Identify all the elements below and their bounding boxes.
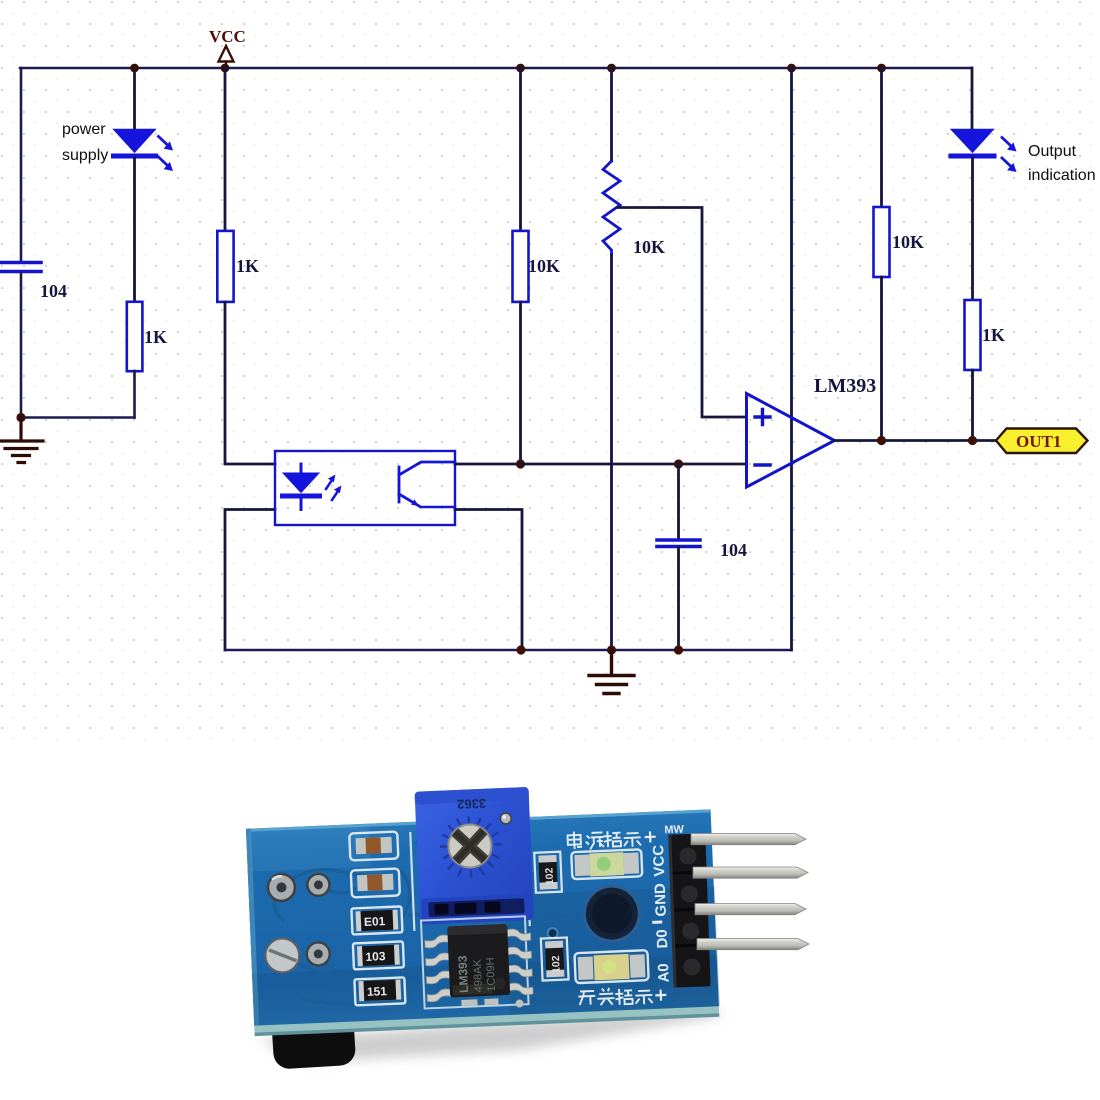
wire R1 top bbox=[224, 68, 227, 231]
wire top power rail bbox=[20, 67, 972, 70]
capacitor C2 104 bbox=[657, 540, 747, 560]
node emitter ground junction bbox=[516, 645, 525, 654]
svg-text:10K: 10K bbox=[892, 232, 924, 252]
svg-text:VCC: VCC bbox=[650, 844, 668, 877]
capacitor C1 104 bbox=[0, 263, 67, 302]
svg-text:OUT1: OUT1 bbox=[1016, 432, 1061, 451]
smd capacitor tan 2 bbox=[357, 874, 394, 891]
copper traces bbox=[272, 832, 641, 1008]
resistor R6 1K bbox=[965, 300, 1006, 370]
wire R2 to ground link bbox=[133, 371, 136, 418]
smd resistor 103 bbox=[357, 945, 400, 967]
svg-text:indication: indication bbox=[1028, 167, 1096, 184]
svg-text:10K: 10K bbox=[633, 237, 665, 257]
node power LED branch on rail bbox=[130, 64, 139, 73]
IC LM393 SOIC-8 bbox=[424, 923, 533, 1011]
wire C2 top bbox=[677, 464, 680, 539]
header pin 1 bbox=[691, 834, 806, 845]
optocoupler phototransistor bbox=[399, 462, 455, 507]
smd 102 lower bbox=[541, 938, 569, 981]
wire left column upper bbox=[20, 68, 23, 261]
resistor R3 10K bbox=[513, 231, 561, 302]
node rail branch R5 bbox=[877, 64, 886, 73]
wire opto collector to node bbox=[455, 463, 521, 466]
svg-text:151: 151 bbox=[367, 984, 388, 999]
board substrate bbox=[246, 809, 719, 1025]
board shadow bbox=[258, 1008, 722, 1062]
svg-text:supply: supply bbox=[62, 147, 108, 164]
silkscreen chinese label switch indicator bbox=[578, 985, 667, 1007]
svg-text:LM393: LM393 bbox=[455, 955, 471, 993]
LED D2 output indication bbox=[951, 130, 1017, 173]
header pin 2 bbox=[693, 867, 808, 878]
svg-text:102: 102 bbox=[543, 867, 556, 885]
solder joint pads bottom pair bbox=[265, 936, 331, 973]
svg-text:1K: 1K bbox=[982, 325, 1005, 345]
node rail branch R3 bbox=[516, 64, 525, 73]
ground GND2 bbox=[589, 650, 634, 694]
optocoupler U2 box bbox=[275, 451, 455, 525]
potentiometer RP1 10K zigzag bbox=[603, 161, 665, 257]
wire comparator output bbox=[835, 439, 997, 442]
wire potentiometer top bbox=[610, 68, 613, 161]
wire C2 bottom bbox=[677, 547, 680, 650]
wire ground link bbox=[21, 416, 135, 419]
sensor hole bbox=[582, 883, 642, 943]
LED D1 power supply bbox=[114, 130, 174, 172]
label power supply bbox=[62, 121, 108, 164]
wire optocoupler cathode return bbox=[225, 510, 275, 651]
net flag OUT1 bbox=[996, 429, 1088, 454]
wire R3 bottom to comparator minus node bbox=[519, 302, 522, 464]
trimmer potentiometer bbox=[415, 787, 534, 925]
svg-text:103: 103 bbox=[365, 949, 386, 964]
wire potentiometer wiper tap bbox=[618, 208, 747, 418]
svg-text:power: power bbox=[62, 121, 106, 138]
node output junction R5 bbox=[877, 436, 886, 445]
sensor body under board bbox=[271, 1005, 357, 1070]
silkscreen around IC bbox=[421, 916, 529, 1008]
wire R5 top bbox=[880, 68, 883, 207]
wire comparator minus line bbox=[521, 463, 747, 466]
LED power indicator bbox=[571, 849, 642, 879]
svg-text:102: 102 bbox=[550, 955, 563, 973]
resistor R2 1K bbox=[127, 302, 167, 371]
smd resistor E01 bbox=[356, 910, 399, 932]
node potentiometer ground junction bbox=[607, 645, 616, 654]
smd resistor 151 bbox=[358, 980, 401, 1002]
header pin 3 bbox=[695, 904, 806, 915]
silkscreen chinese label power indicator bbox=[567, 828, 656, 850]
PCB module photo bbox=[245, 779, 809, 1069]
svg-text:LM393: LM393 bbox=[814, 375, 876, 397]
svg-text:1C09H: 1C09H bbox=[485, 957, 498, 992]
solder joint pads top pair bbox=[267, 872, 330, 902]
wire comparator supply feed bbox=[790, 68, 793, 650]
svg-text:3362: 3362 bbox=[457, 796, 487, 812]
svg-text:1K: 1K bbox=[236, 256, 259, 276]
svg-text:498AK: 498AK bbox=[472, 958, 485, 992]
svg-text:Output: Output bbox=[1028, 143, 1077, 160]
dotted grid of schematic sheet bbox=[0, 0, 1100, 742]
wire D2 to R6 bbox=[971, 158, 974, 300]
wire potentiometer bottom bbox=[610, 255, 613, 650]
node C2 ground junction bbox=[674, 645, 683, 654]
wire bottom ground rail bbox=[225, 649, 792, 652]
svg-text:1K: 1K bbox=[144, 327, 167, 347]
wire R3 top bbox=[519, 68, 522, 231]
board bottom side face bbox=[254, 1002, 719, 1035]
svg-text:D0: D0 bbox=[654, 929, 672, 949]
wire LED to R2 bbox=[133, 158, 136, 302]
svg-text:E01: E01 bbox=[364, 914, 386, 929]
resistor R5 10K bbox=[874, 207, 925, 277]
node capacitor C2 tap bbox=[674, 459, 683, 468]
wire R5 bottom bbox=[880, 277, 883, 441]
node output junction R6 bbox=[968, 436, 977, 445]
op-amp U1 LM393 bbox=[747, 375, 877, 487]
silkscreen lines flanking pot bbox=[410, 832, 414, 931]
silkscreen boxes around smd caps bbox=[348, 831, 405, 1005]
smd 102 upper bbox=[534, 852, 562, 893]
wire output LED feed bbox=[971, 68, 974, 130]
node rail branch potentiometer bbox=[607, 64, 616, 73]
LED switch indicator bbox=[574, 950, 648, 983]
node rail branch comparator supply bbox=[787, 64, 796, 73]
svg-text:GND: GND bbox=[652, 883, 670, 917]
node comparator minus input bbox=[516, 459, 525, 468]
silkscreen pin names A0 D0 GND VCC bbox=[649, 844, 673, 982]
ground GND1 bbox=[0, 418, 43, 463]
smd capacitor tan 1 bbox=[355, 837, 392, 854]
svg-text:A0: A0 bbox=[655, 963, 673, 983]
wire opto emitter to ground rail bbox=[455, 510, 522, 651]
via bbox=[547, 928, 557, 938]
optocoupler LED bbox=[283, 464, 342, 510]
svg-text:VCC: VCC bbox=[209, 27, 246, 46]
node VCC branch R1 bbox=[221, 64, 230, 73]
wire left column lower bbox=[20, 273, 23, 418]
header pin 4 bbox=[697, 939, 809, 950]
wire R1 to optocoupler anode bbox=[225, 302, 275, 464]
PCB board bbox=[245, 779, 721, 1036]
wire power LED feed bbox=[133, 68, 136, 130]
power symbol VCC bbox=[209, 27, 246, 68]
svg-text:10K: 10K bbox=[528, 256, 560, 276]
label Output indication bbox=[1028, 143, 1096, 184]
wire R6 bottom bbox=[971, 370, 974, 441]
pin header plastic bbox=[668, 833, 710, 987]
node left ground junction bbox=[16, 413, 25, 422]
svg-text:104: 104 bbox=[720, 540, 747, 560]
svg-text:104: 104 bbox=[40, 281, 67, 301]
resistor R1 1K bbox=[217, 231, 259, 302]
